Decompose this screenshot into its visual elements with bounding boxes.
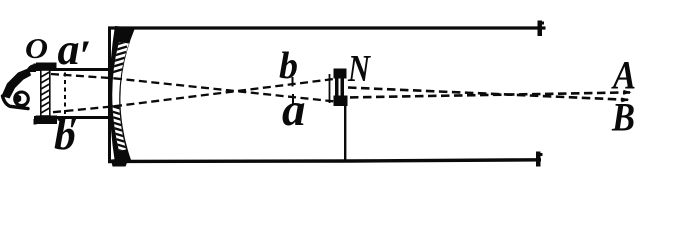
tick at b: [292, 77, 294, 87]
main tube front plate: [108, 27, 111, 161]
ray a' to a (descending): [51, 74, 338, 102]
ray N to A: [348, 88, 628, 100]
tube bottom line: [108, 160, 541, 162]
eyepiece lens hatched bar: [36, 63, 58, 125]
mounting post: [344, 104, 346, 161]
svg-text:a: a: [58, 25, 80, 74]
svg-text:a: a: [282, 84, 306, 136]
tube top end tick: [538, 21, 545, 37]
arrowhead on ray B: [621, 97, 629, 102]
arrowhead on ray A: [623, 90, 631, 95]
svg-text:′: ′: [79, 33, 91, 80]
tube top line: [108, 26, 546, 29]
eyepiece tube bottom line: [34, 118, 110, 125]
tick at a: [292, 94, 294, 104]
tube bottom end tick: [536, 152, 543, 167]
erecting lens N: [330, 69, 348, 107]
svg-text:b: b: [279, 45, 298, 87]
svg-text:′: ′: [68, 111, 78, 150]
image a'b' dashed vertical: [64, 73, 66, 116]
eye at O: [2, 64, 37, 109]
eyepiece tube top line: [34, 64, 110, 70]
objective lens crescent: [105, 26, 135, 167]
svg-text:B: B: [611, 95, 635, 140]
ray b' to b (ascending): [53, 79, 338, 113]
ray N to B: [350, 92, 630, 97]
svg-text:N: N: [347, 48, 371, 90]
svg-text:A: A: [610, 53, 636, 98]
svg-text:O: O: [25, 33, 48, 65]
